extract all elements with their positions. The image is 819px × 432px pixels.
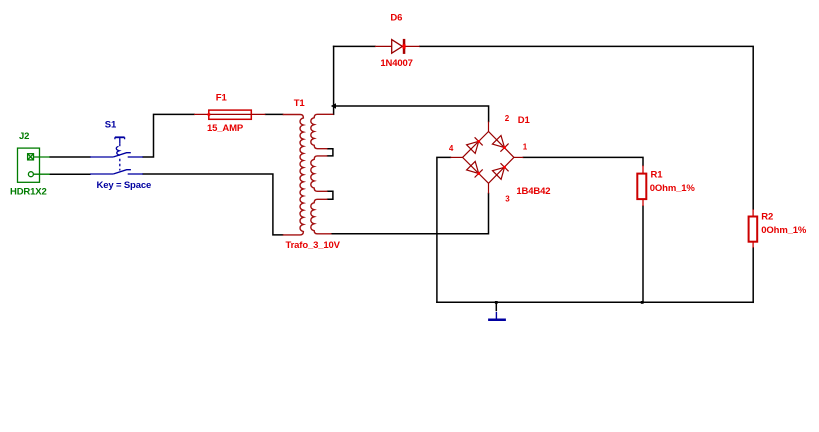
- svg-text:15_AMP: 15_AMP: [207, 123, 244, 134]
- svg-text:Trafo_3_10V: Trafo_3_10V: [286, 240, 341, 251]
- svg-text:Key = Space: Key = Space: [97, 180, 152, 191]
- svg-text:0Ohm_1%: 0Ohm_1%: [761, 225, 807, 236]
- svg-text:1B4B42: 1B4B42: [516, 186, 550, 197]
- svg-text:4: 4: [449, 144, 454, 153]
- svg-text:T1: T1: [294, 98, 306, 109]
- svg-text:0Ohm_1%: 0Ohm_1%: [650, 183, 696, 194]
- svg-text:1N4007: 1N4007: [380, 58, 412, 69]
- svg-text:R2: R2: [761, 212, 773, 223]
- svg-text:R1: R1: [651, 169, 664, 180]
- svg-text:F1: F1: [216, 93, 228, 104]
- svg-text:D1: D1: [518, 115, 531, 126]
- svg-text:D6: D6: [390, 12, 402, 23]
- svg-text:HDR1X2: HDR1X2: [10, 187, 47, 198]
- svg-text:1: 1: [523, 143, 528, 152]
- svg-text:2: 2: [505, 114, 510, 123]
- svg-text:3: 3: [505, 195, 510, 204]
- svg-text:S1: S1: [105, 119, 117, 130]
- svg-text:J2: J2: [19, 131, 29, 142]
